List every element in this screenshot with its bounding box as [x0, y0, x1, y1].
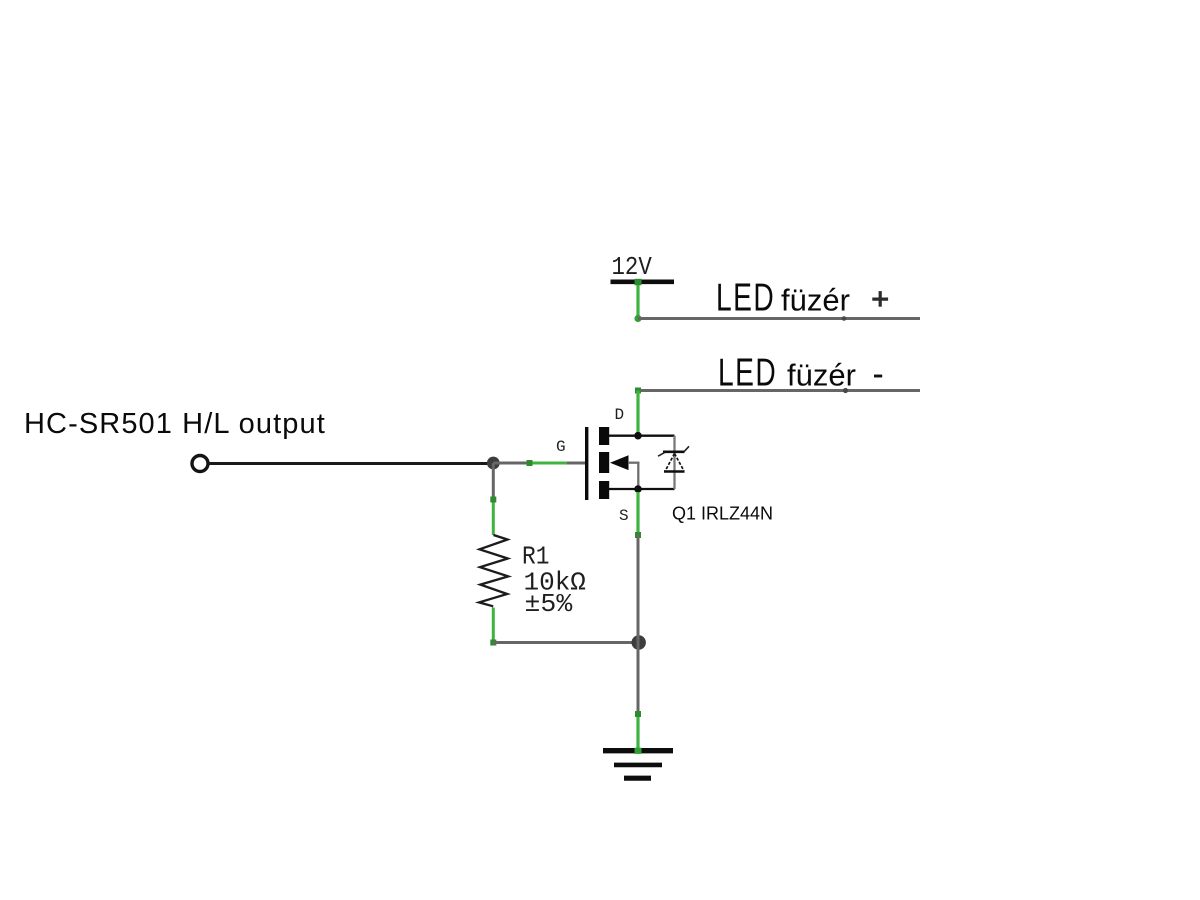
wire source to ground junction: [637, 535, 640, 643]
node drain junction: [634, 432, 642, 440]
label LED fuzer +: [716, 276, 888, 319]
svg-text:LED: LED: [716, 276, 775, 319]
resistor R1 value labels: [522, 544, 586, 619]
node gate junction: [487, 457, 500, 470]
source stub: [609, 488, 675, 490]
MOSFET source pin leg (green): [635, 492, 641, 538]
node source/ground junction: [632, 635, 646, 649]
channel segment middle: [599, 452, 609, 473]
wire ground junction down to ground: [637, 643, 640, 715]
wire LED fuzer -: [635, 388, 920, 394]
ground pin leg (green): [635, 711, 641, 751]
drain stub: [609, 435, 675, 437]
wire gate junction down to resistor: [492, 463, 495, 498]
MOSFET Q1 symbol: [585, 427, 689, 500]
gate bar: [585, 427, 588, 500]
channel segment bottom: [599, 481, 609, 499]
body diode anode bar: [664, 470, 685, 473]
wire LED fuzer +: [638, 316, 920, 321]
wire resistor bottom to source junction: [493, 641, 638, 644]
svg-text:D: D: [615, 406, 625, 424]
power pin leg (green) 12V down to LED+ wire: [634, 279, 641, 322]
body diode vertical wire: [673, 436, 675, 489]
wire from terminal to gate junction: [209, 462, 494, 465]
svg-text:±5%: ±5%: [525, 589, 573, 619]
pin label S: [619, 507, 629, 525]
channel segment top: [599, 427, 609, 445]
svg-text:G: G: [556, 438, 566, 456]
arrow to source wire: [628, 462, 640, 464]
body diode cathode bar: [663, 450, 685, 453]
body diode triangle: [665, 454, 684, 472]
svg-text:füzér: füzér: [787, 358, 856, 393]
label Q1 IRLZ44N: [672, 504, 773, 524]
pin label D: [615, 406, 625, 424]
svg-text:HC-SR501 H/L output: HC-SR501 H/L output: [24, 408, 326, 440]
ground symbol: [603, 748, 673, 779]
MOSFET drain pin leg (green): [636, 391, 639, 435]
svg-text:S: S: [619, 507, 629, 525]
label LED fuzer -: [718, 351, 882, 394]
svg-text:LED: LED: [718, 351, 777, 394]
gate pin leg (green): [527, 460, 568, 466]
power symbol 12V: [611, 254, 675, 283]
pin label G: [556, 438, 566, 456]
resistor R1 zigzag body: [479, 535, 508, 606]
resistor R1 bottom leg (green): [490, 608, 496, 646]
substrate arrow: [610, 455, 629, 470]
node source junction: [634, 485, 642, 493]
svg-text:12V: 12V: [612, 254, 653, 283]
wire gate junction to MOSFET gate: [493, 462, 585, 465]
terminal circle (HC-SR501 output pin): [192, 456, 208, 472]
svg-text:füzér: füzér: [781, 283, 850, 318]
svg-text:Q1 IRLZ44N: Q1 IRLZ44N: [672, 504, 773, 524]
resistor R1 top leg (green): [490, 497, 496, 536]
label HC-SR501 H/L output: [24, 408, 326, 440]
